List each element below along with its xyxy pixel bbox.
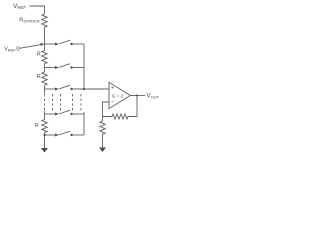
svg-text:R: R [37,51,41,57]
svg-text:VREF/2: VREF/2 [4,47,20,53]
svg-text:G = 2: G = 2 [112,93,124,98]
svg-text:R: R [35,123,39,129]
svg-text:RDIVIDER: RDIVIDER [19,17,40,23]
svg-text:R: R [37,74,41,80]
svg-text:+: + [111,86,114,92]
svg-text:−: − [111,100,114,106]
